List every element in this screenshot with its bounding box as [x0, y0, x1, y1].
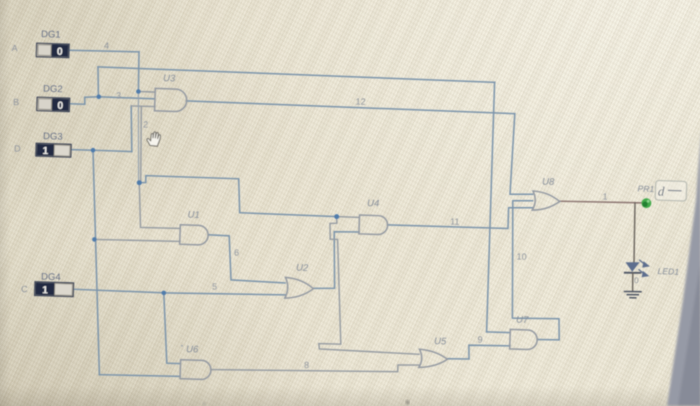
wire net3 top rail horizontal: [98, 67, 495, 82]
svg-text:U8: U8: [542, 177, 555, 188]
svg-text:DG2: DG2: [43, 84, 63, 96]
svg-text:6: 6: [234, 248, 239, 258]
wire net2 DG3 output: [71, 149, 93, 152]
wire net4 DG1 output horizontal: [69, 50, 139, 52]
wire net4 vertical down to U3 pin1: [137, 52, 140, 92]
probe PR1: [642, 198, 652, 208]
right dark band: [667, 130, 700, 406]
wire net10 U7 output loop to U8 pin2: [512, 201, 559, 340]
svg-text:U2: U2: [296, 263, 309, 274]
wire net12 vertical down to U8 pin1: [510, 114, 533, 195]
wire net5 DG4 output to junction: [73, 289, 164, 293]
junction dot net2 mid: [137, 180, 142, 185]
wire net11 U4 output to U8 pin3: [388, 208, 533, 229]
wire net8 U6 output to U5 pin2: [211, 365, 419, 372]
wire net2 DG3 to riser: [93, 150, 132, 151]
wire net3 to U3 pin2: [99, 97, 155, 99]
svg-text:2: 2: [143, 120, 148, 130]
LED LED1: [625, 260, 650, 291]
junction dot net3: [97, 95, 102, 100]
junction dot net2 at U4: [334, 214, 339, 219]
svg-text:DG3: DG3: [43, 131, 63, 143]
svg-text:PR1: PR1: [637, 184, 654, 195]
svg-text:0: 0: [57, 46, 63, 58]
svg-text:U7: U7: [516, 315, 529, 326]
svg-text:11: 11: [450, 217, 460, 227]
wire net3 DG2 output jog: [70, 97, 99, 104]
AND gate U6: [180, 360, 211, 380]
svg-text:8: 8: [304, 360, 309, 370]
svg-text:DG1: DG1: [41, 29, 61, 41]
wire net2 branch to U6 pin2: [99, 375, 180, 377]
OR gate U8: [532, 191, 560, 211]
wire net2 riser up to U3 pin3: [130, 106, 133, 152]
AND gate U7: [510, 329, 538, 349]
svg-text:A: A: [11, 43, 17, 53]
wire net2 junction to U1 pin2: [94, 239, 180, 241]
svg-text:1: 1: [42, 284, 48, 296]
junction dot net4 at U3 pin1: [136, 89, 141, 94]
wire net4 stub into U3 pin1: [138, 91, 155, 94]
wire net1 branch down to LED: [634, 203, 635, 262]
wire net12 U3 output long horizontal: [186, 101, 514, 114]
ground: [625, 292, 642, 298]
junction dot net2 at DG3: [91, 148, 96, 153]
wire net3 long vertical down right side: [487, 82, 495, 332]
svg-text:1: 1: [42, 145, 48, 157]
wire net7 U2 output up to U4 pin2: [313, 232, 359, 289]
wire net4 vertical continuation past U3 pin1: [137, 93, 139, 182]
svg-text:U3: U3: [163, 73, 176, 84]
AND gate U3: [155, 88, 188, 111]
svg-text:9: 9: [477, 335, 482, 345]
digital constant DG3: [36, 143, 71, 158]
wire net2 descent to U5 pin1: [319, 217, 419, 355]
wire net3 into U7 pin1: [487, 331, 510, 334]
speck near U6 label: [181, 345, 183, 347]
svg-text:B: B: [13, 97, 19, 107]
svg-text:5: 5: [212, 282, 217, 292]
wire net2 U3 pin3 horizontal: [131, 105, 155, 108]
svg-text:U4: U4: [367, 198, 380, 209]
wire net5 to U2 pin2: [164, 293, 285, 295]
wire net9 U5 output to U7 pin2: [447, 345, 510, 359]
svg-text:0: 0: [634, 276, 639, 285]
wire net2 hanging vertical to junction: [139, 106, 141, 183]
svg-text:12: 12: [355, 97, 365, 107]
digital constant DG2: [37, 97, 70, 112]
wire net2 zigzag to U4 area: [139, 176, 336, 217]
AND gate U4: [359, 215, 388, 235]
svg-text:D: D: [14, 144, 21, 154]
junction dot net5: [162, 291, 167, 296]
svg-text:LED1: LED1: [657, 266, 679, 277]
svg-text:C: C: [21, 284, 28, 294]
AND gate U1: [180, 225, 209, 245]
junction dot net2 at U1: [92, 237, 97, 242]
dust speck 2: [203, 402, 206, 405]
svg-text:d: d: [658, 184, 666, 199]
svg-text:U1: U1: [187, 210, 200, 221]
svg-text:U6: U6: [186, 344, 199, 355]
wire net2 down to U1 pin1: [139, 183, 180, 229]
digital constant DG1: [36, 43, 69, 58]
svg-text:0: 0: [57, 100, 63, 112]
hand cursor: [146, 131, 161, 146]
svg-text:U5: U5: [434, 336, 447, 347]
OR gate U2: [285, 277, 314, 299]
wire net1 U8 output to probe: [560, 201, 642, 203]
wire net3 riser to top rail: [97, 67, 99, 97]
svg-text:4: 4: [104, 41, 109, 51]
probe value box d: [655, 180, 687, 201]
wire net2 left long vertical: [93, 150, 99, 375]
svg-text:10: 10: [516, 252, 526, 262]
dust speck 1: [406, 400, 409, 405]
wire net6 U1 output to U2 pin1: [208, 235, 285, 283]
svg-text:1: 1: [602, 192, 607, 202]
digital constant DG4: [35, 282, 74, 297]
OR gate U5: [419, 349, 448, 368]
svg-text:DG4: DG4: [41, 272, 61, 284]
svg-text:3: 3: [116, 91, 121, 101]
wire net5 down branch: [164, 293, 181, 364]
wire net2 stub into U4 pin1: [337, 216, 360, 219]
